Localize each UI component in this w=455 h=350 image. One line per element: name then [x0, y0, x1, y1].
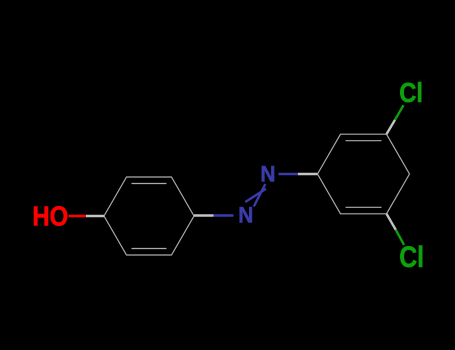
N1=N2 double bond main line — [254, 184, 265, 207]
bond O-C1 red half — [69, 215, 87, 217]
bond C5'-Cl green half — [396, 230, 404, 245]
ring 2 double bond (top inner) — [346, 140, 382, 142]
svg-text:N: N — [238, 203, 253, 228]
N1=N2 double bond second line — [245, 189, 266, 202]
bond C5'-Cl gray half — [387, 214, 396, 230]
benzene ring 2 (dichlorophenyl) — [318, 134, 410, 214]
bond N2-C1' gray half — [298, 173, 318, 175]
bond C4-N1 blue half — [214, 214, 234, 216]
benzene ring 1 (phenol ring) — [104, 177, 194, 255]
bond N2-C1' blue half — [279, 173, 299, 175]
bond O-C1 gray half — [86, 215, 104, 217]
ring 2 double bond (bottom inner) — [346, 206, 382, 208]
ring 1 double bond (top inner) — [132, 183, 167, 185]
bond C3'-Cl gray half — [387, 120, 396, 134]
svg-text:Cl: Cl — [399, 76, 423, 108]
bond C4-N1 gray half — [194, 214, 214, 216]
bond C3'-Cl green half — [395, 105, 404, 120]
ring 1 double bond (bottom inner) — [132, 248, 167, 250]
svg-text:HO: HO — [32, 202, 68, 232]
svg-text:Cl: Cl — [399, 240, 424, 273]
svg-text:N: N — [260, 162, 275, 187]
